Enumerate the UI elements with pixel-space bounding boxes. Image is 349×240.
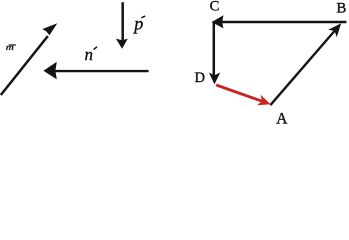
quadrilateral: arrow B to C (left): [212, 15, 347, 28]
vector n arrow (left): [43, 62, 148, 80]
red arrow D to A: [216, 85, 270, 105]
label n-bar: [85, 45, 98, 64]
arrow A to B (up-right diagonal): [270, 23, 341, 105]
svg-text:B: B: [336, 1, 346, 17]
vector m arrow (diagonal up-right): [1, 23, 58, 95]
svg-text:A: A: [276, 110, 288, 125]
arrow C to D (down): [209, 21, 220, 84]
vector p arrow (down): [116, 2, 128, 49]
label m-bar: [6, 43, 16, 52]
svg-text:p: p: [132, 14, 143, 34]
label p-bar: [132, 14, 145, 34]
svg-text:C: C: [210, 0, 220, 15]
svg-text:D: D: [195, 70, 206, 86]
svg-text:n: n: [85, 45, 94, 64]
